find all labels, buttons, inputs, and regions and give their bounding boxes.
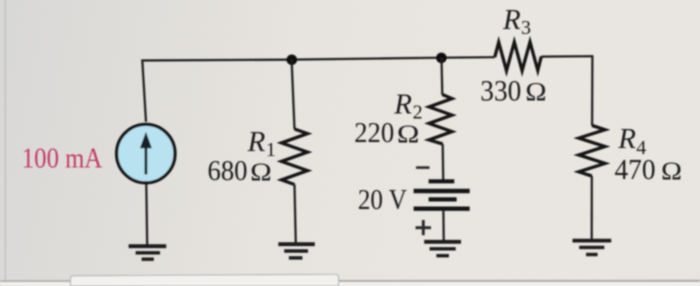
- label R3: [502, 4, 531, 39]
- current source I1 100 mA: [117, 124, 175, 182]
- wire R2 to battery: [442, 144, 445, 180]
- window bottom edge line: [0, 280, 700, 286]
- ground (current source): [129, 246, 167, 259]
- wire battery to ground: [442, 211, 445, 240]
- wire R3 right lead to top right corner down to R4: [541, 56, 592, 126]
- wire R4 to ground: [591, 176, 593, 239]
- svg-text:Ω: Ω: [397, 119, 420, 148]
- svg-text:220: 220: [354, 117, 394, 149]
- polarity minus: [416, 166, 430, 169]
- label 20 V: [358, 184, 407, 216]
- svg-text:680: 680: [208, 155, 248, 187]
- ground (R4): [573, 241, 612, 255]
- resistor R1 zigzag: [282, 129, 308, 185]
- svg-text:Ω: Ω: [661, 156, 682, 185]
- svg-text:20 V: 20 V: [358, 184, 407, 216]
- wire node B to R2: [440, 58, 443, 95]
- label 220 ohm: [354, 117, 419, 149]
- wire top left corner to current source: [142, 60, 291, 122]
- label 100 mA: [22, 143, 103, 175]
- svg-text:330: 330: [480, 74, 521, 107]
- battery V1 20 V: [414, 181, 470, 208]
- resistor R2 zigzag: [429, 95, 452, 145]
- label R1: [247, 126, 276, 161]
- label 680 ohm: [208, 155, 272, 187]
- wire node B to R3 left lead: [441, 56, 494, 59]
- wire node A to R1: [292, 60, 295, 130]
- resistor R3 zigzag: [495, 42, 542, 71]
- label 470 ohm: [615, 154, 683, 186]
- ground (R1): [278, 244, 315, 258]
- wire R1 to ground: [295, 185, 296, 245]
- wire top node A to node B: [291, 58, 441, 60]
- svg-text:R: R: [393, 89, 412, 121]
- svg-text:470: 470: [615, 154, 656, 186]
- label R2: [393, 89, 422, 124]
- svg-text:Ω: Ω: [250, 157, 271, 186]
- svg-text:3: 3: [521, 17, 531, 39]
- svg-text:R: R: [502, 4, 521, 36]
- ground (battery): [424, 242, 461, 256]
- node A junction dot: [287, 55, 298, 66]
- svg-text:100 mA: 100 mA: [22, 143, 103, 175]
- wire current source to ground: [145, 184, 148, 246]
- page left edge line: [4, 0, 6, 281]
- label R4: [617, 123, 646, 159]
- svg-text:R: R: [247, 126, 266, 158]
- resistor R4 zigzag: [579, 126, 605, 177]
- svg-text:Ω: Ω: [525, 77, 546, 106]
- card top edge at bottom: [71, 274, 339, 286]
- svg-text:R: R: [617, 123, 636, 155]
- polarity plus: [416, 220, 432, 235]
- node B junction dot: [436, 53, 447, 64]
- label 330 ohm: [480, 74, 546, 107]
